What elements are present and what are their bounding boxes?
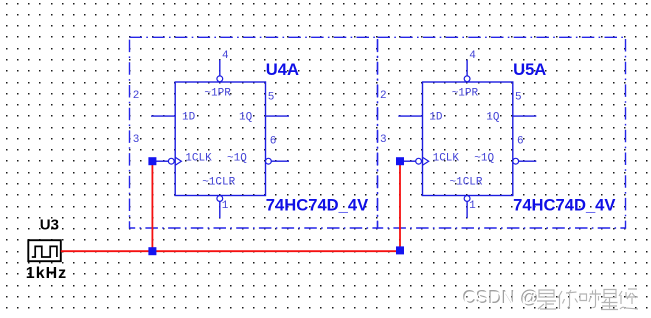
U4A pin 1 wire	[219, 202, 221, 219]
U4A pin 2 (1D) wire	[151, 115, 175, 117]
svg-text:1Q: 1Q	[239, 112, 253, 124]
svg-text:~1CLR: ~1CLR	[450, 177, 483, 189]
svg-text:6: 6	[517, 136, 524, 148]
svg-text:1: 1	[222, 200, 229, 212]
junction square at U4A CLK pin	[148, 157, 156, 165]
svg-text:1Q: 1Q	[486, 112, 500, 124]
U4A pin 4 bubble	[217, 76, 223, 82]
U4A pin 3 bubble	[168, 158, 174, 164]
svg-text:3: 3	[133, 134, 140, 146]
svg-text:~1PR: ~1PR	[452, 88, 479, 100]
U5A pin 1 wire	[466, 202, 468, 219]
junction square B on clock net	[396, 246, 404, 254]
watermark CSDN (embossed gray)	[462, 286, 540, 308]
svg-text:6: 6	[270, 136, 277, 148]
flip-flop U4A body	[175, 82, 265, 196]
svg-text:U5A: U5A	[513, 60, 546, 79]
clock source U3 body	[28, 240, 61, 261]
U5A pin 2 (1D) wire	[398, 115, 422, 117]
dashed subcircuit boundary box 1 (around U4A)	[130, 37, 378, 228]
svg-text:5: 5	[268, 92, 275, 104]
U5A pin 4 (~1PR) wire	[466, 60, 468, 76]
svg-text:U3: U3	[40, 216, 59, 233]
U4A pin 5 (1Q) wire	[266, 115, 290, 117]
svg-text:5: 5	[515, 92, 522, 104]
svg-text:1: 1	[469, 200, 476, 212]
svg-text:~1PR: ~1PR	[204, 88, 231, 100]
U5A pin 6 wire	[519, 160, 537, 162]
svg-text:1CLK: 1CLK	[433, 153, 460, 165]
wire: U3 output to junction A (horizontal)	[61, 250, 153, 252]
U5A pin 4 bubble	[464, 76, 470, 82]
svg-text:74HC74D_4V: 74HC74D_4V	[266, 195, 368, 214]
watermark chinese characters (vector approximation)	[537, 289, 638, 310]
dashed subcircuit boundary box 2 (around U5A)	[378, 37, 626, 228]
U4A pin 6 (~1Q) bubble	[266, 158, 272, 164]
U5A clock edge triangle	[423, 157, 429, 165]
U5A pin 3 (1CLK) stub wire	[403, 160, 415, 162]
svg-text:4: 4	[222, 50, 229, 62]
svg-text:3: 3	[380, 134, 387, 146]
svg-text:1kHz: 1kHz	[26, 265, 67, 282]
svg-text:U4A: U4A	[266, 60, 299, 79]
flip-flop U5A body	[423, 82, 513, 196]
U5A pin 6 (~1Q) bubble	[513, 158, 519, 164]
junction square A on clock net	[148, 247, 156, 255]
U5A pin 5 (1Q) wire	[513, 115, 537, 117]
svg-text:CSDN @: CSDN @	[463, 287, 539, 308]
svg-text:~1Q: ~1Q	[227, 153, 247, 165]
U4A pin 4 (~1PR) wire	[219, 60, 221, 76]
svg-text:2: 2	[380, 90, 387, 102]
clock source U3 square-wave symbol	[32, 246, 57, 257]
svg-text:1CLK: 1CLK	[185, 153, 212, 165]
svg-text:1D: 1D	[429, 112, 443, 124]
U5A pin 3 bubble	[416, 158, 422, 164]
svg-text:~1CLR: ~1CLR	[202, 177, 235, 189]
U4A pin 3 (1CLK) stub wire	[156, 160, 168, 162]
wire: junction B up to U5A CLK node (vertical)	[399, 163, 401, 251]
U4A pin 1 (~1CLR) bubble	[217, 196, 223, 202]
wire: junction A to junction B (horizontal)	[152, 250, 400, 252]
svg-text:4: 4	[469, 50, 476, 62]
junction square at U5A CLK pin	[396, 157, 404, 165]
wire: junction A up to U4A CLK node (vertical)	[151, 163, 153, 251]
svg-text:~1Q: ~1Q	[474, 153, 494, 165]
svg-text:1D: 1D	[182, 112, 196, 124]
U4A pin 6 wire	[271, 160, 289, 162]
svg-text:2: 2	[133, 90, 140, 102]
U4A clock edge triangle	[175, 157, 181, 165]
U5A pin 1 (~1CLR) bubble	[464, 196, 470, 202]
svg-text:74HC74D_4V: 74HC74D_4V	[513, 195, 615, 214]
